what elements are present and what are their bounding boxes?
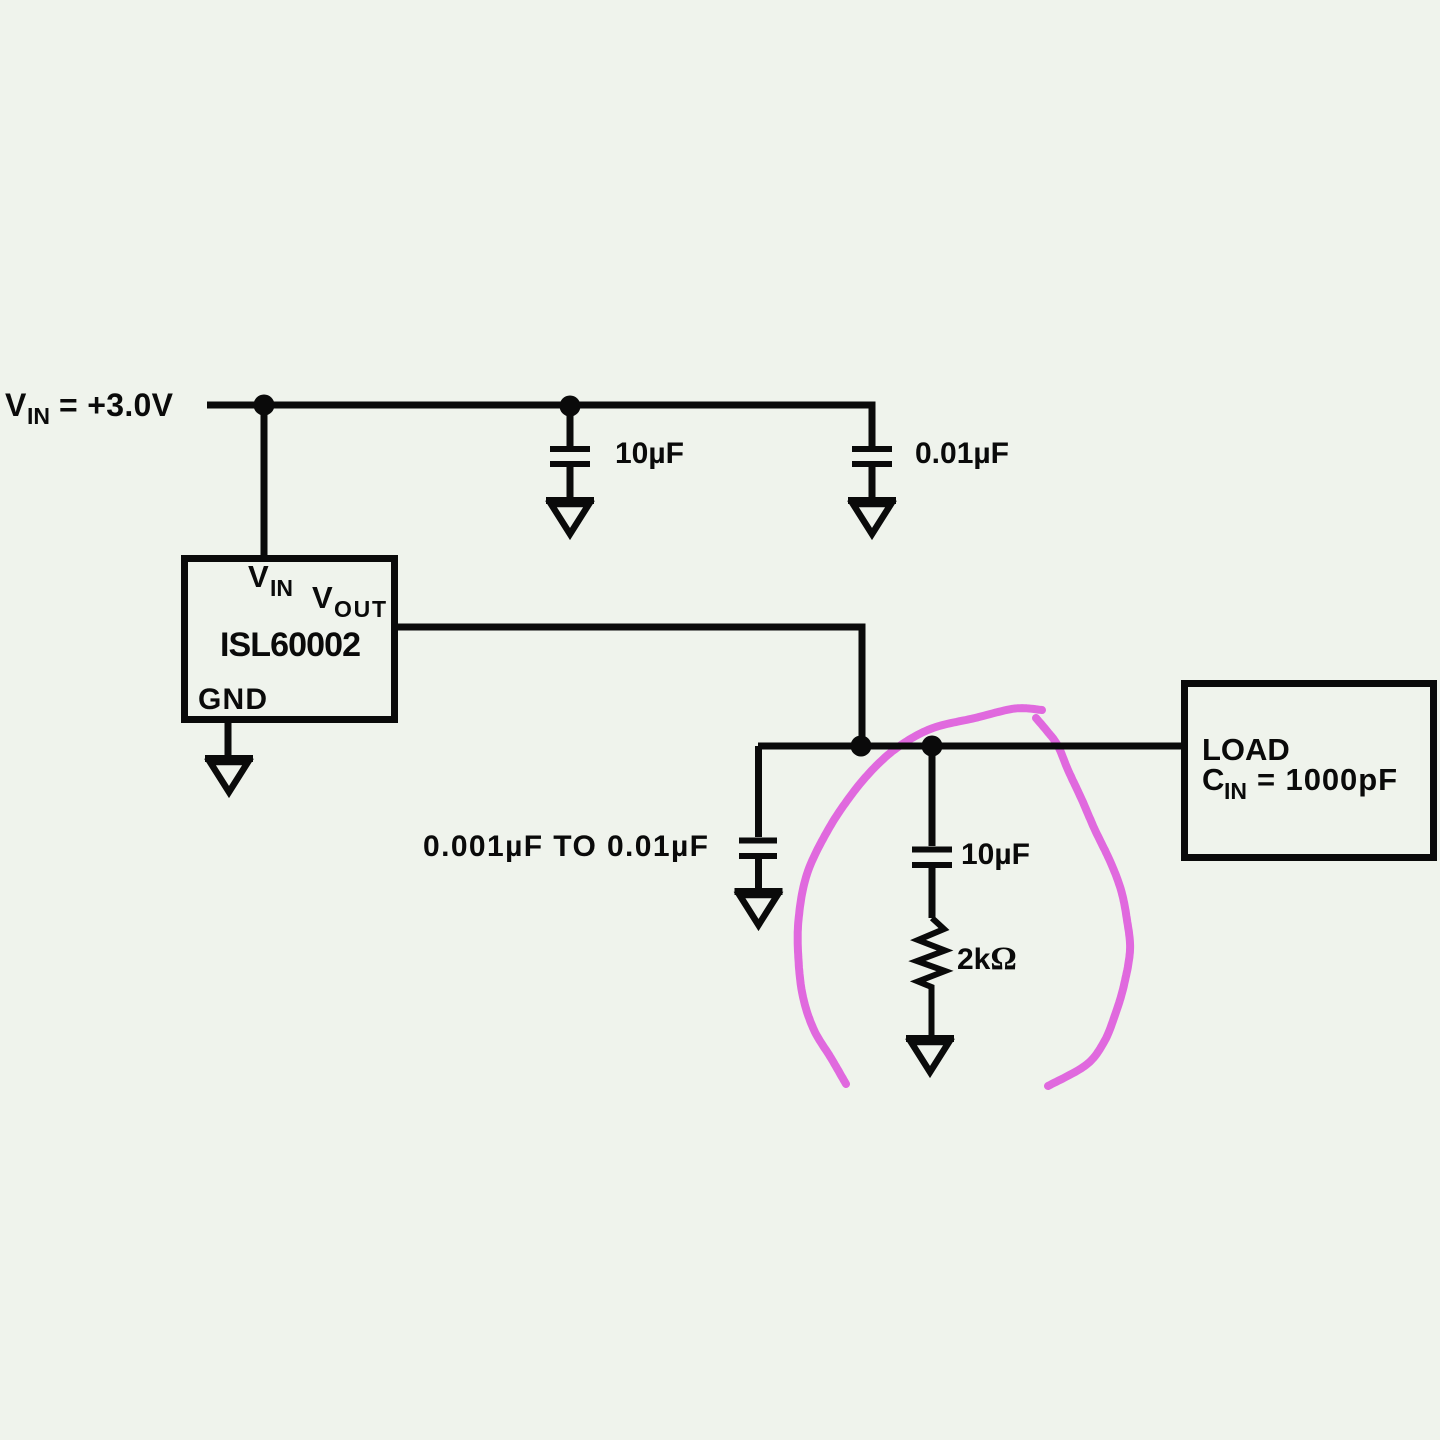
svg-text:GND: GND — [198, 683, 267, 716]
svg-text:= 1000pF: = 1000pF — [1257, 762, 1397, 797]
svg-text:2kΩ: 2kΩ — [957, 941, 1017, 977]
svg-text:V: V — [248, 559, 269, 594]
svg-text:V: V — [312, 580, 333, 615]
svg-text:IN: IN — [270, 575, 293, 601]
svg-text:IN: IN — [1224, 778, 1247, 804]
svg-text:10µF: 10µF — [961, 838, 1030, 871]
svg-text:OUT: OUT — [334, 596, 386, 622]
svg-text:ISL60002: ISL60002 — [220, 626, 361, 664]
svg-text:C: C — [1202, 762, 1224, 797]
svg-text:V: V — [5, 387, 27, 423]
svg-text:IN: IN — [27, 403, 50, 429]
svg-text:= +3.0V: = +3.0V — [59, 387, 174, 423]
svg-text:0.01µF: 0.01µF — [915, 437, 1009, 470]
svg-text:0.001µF TO 0.01µF: 0.001µF TO 0.01µF — [423, 830, 708, 863]
svg-text:10µF: 10µF — [615, 437, 684, 470]
